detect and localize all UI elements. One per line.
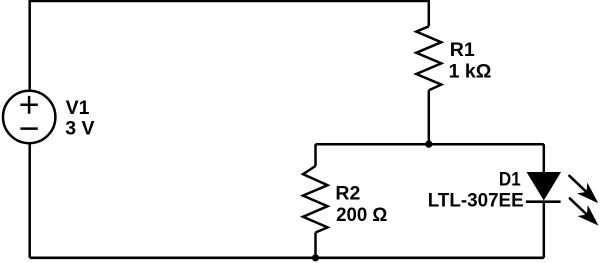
wire top rail from V1 to R1 [30,1,429,90]
resistor R2 [303,166,328,233]
svg-text:3 V: 3 V [65,118,94,140]
wire R2 bottom lead [314,233,317,258]
LED emission arrow 1 [569,176,597,202]
svg-text:1 kΩ: 1 kΩ [449,61,492,83]
voltage source V1 [3,91,55,143]
svg-text:R1: R1 [450,39,475,61]
wire middle rail [316,143,544,146]
wire LED top lead [543,144,546,174]
LED D1 anode triangle [528,173,559,199]
svg-text:LTL-307EE: LTL-307EE [428,190,524,212]
svg-text:V1: V1 [66,97,90,119]
wire from V1 bottom to bottom rail [28,143,31,258]
svg-text:D1: D1 [499,169,521,191]
wire R1 bottom lead to middle rail [428,90,431,144]
svg-text:200 Ω: 200 Ω [336,204,387,226]
wire R2 top lead [314,144,317,166]
LED emission arrow 2 [570,198,598,224]
V1 plus terminal [20,96,37,114]
wire LED cathode to bottom rail [543,202,546,258]
node junction R1 and middle rail [425,141,432,148]
resistor R1 [416,26,441,90]
wire bottom rail [30,256,544,259]
V1 minus terminal [20,127,37,130]
LED D1 cathode bar [526,200,561,203]
node junction R2 and bottom rail [312,254,319,261]
svg-text:R2: R2 [335,182,360,204]
